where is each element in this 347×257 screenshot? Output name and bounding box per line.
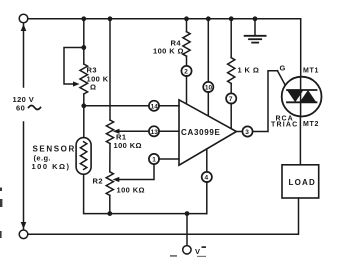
wire R1 to R2 <box>109 144 111 172</box>
wire sensor bottom to bottom bus <box>84 174 207 213</box>
terminal V- <box>183 246 191 254</box>
wire load to bottom rail <box>28 198 299 234</box>
wire R4 to pin 2 <box>186 56 188 66</box>
label RCA TRIAC <box>271 115 298 128</box>
pin 14 <box>149 101 159 111</box>
arrow to bottom terminal <box>21 222 27 229</box>
triac RCA <box>282 77 322 117</box>
svg-text:MT2: MT2 <box>303 121 319 128</box>
svg-text:MT1: MT1 <box>303 68 319 75</box>
wire pin 10 to op-amp <box>207 92 209 117</box>
node dot R3-sensor-pin14 <box>81 103 86 108</box>
sensor resistor element <box>80 142 86 170</box>
svg-text:100 KΩ: 100 KΩ <box>117 186 145 195</box>
wire rail to R4 <box>186 19 188 32</box>
wire V- drop <box>186 214 188 246</box>
wire pin 14 to op-amp <box>159 105 179 107</box>
label G <box>280 64 286 73</box>
resistor R3 <box>80 64 88 94</box>
svg-text:60: 60 <box>16 104 25 113</box>
wire rail to 1K <box>230 19 232 58</box>
node dot V- tap <box>185 211 190 216</box>
wire R3 wiper loop <box>64 48 84 85</box>
wire pin 4 to bus <box>206 182 208 214</box>
svg-text:G: G <box>280 64 286 73</box>
label 120V 60~ <box>13 95 35 113</box>
wire R2 bottom to bus <box>109 195 111 213</box>
svg-text:4: 4 <box>205 175 209 182</box>
label R1 100K ohm <box>114 133 142 151</box>
label 1K ohm <box>238 66 260 75</box>
label SENSOR (e.g. 100K ohm) <box>32 145 76 172</box>
wire pin 2 to op-amp <box>186 76 188 104</box>
arrow R3 wiper <box>73 81 80 86</box>
load box <box>282 165 319 198</box>
node dot rail-R1 <box>108 16 113 21</box>
label R4 100K ohm <box>153 39 184 56</box>
label R2 100K ohm <box>93 177 145 195</box>
label V- <box>195 246 206 256</box>
wire MT1 from rail <box>300 19 302 77</box>
svg-text:LOAD: LOAD <box>289 178 316 187</box>
wire op-amp apex to pin 3 <box>236 131 242 133</box>
svg-text:100 KΩ): 100 KΩ) <box>32 162 71 171</box>
wire pin 1 to op-amp <box>159 158 179 160</box>
wire gate diagonal <box>278 71 288 90</box>
svg-text:1 K Ω: 1 K Ω <box>238 66 260 75</box>
op-amp U1 CA3099E <box>179 100 236 165</box>
svg-text:SENSOR: SENSOR <box>33 145 76 154</box>
node dot rail-ground <box>253 16 258 21</box>
wire rail to pin 10 <box>207 19 209 82</box>
node dot R3 wiper tap <box>81 45 86 50</box>
pin 13 <box>149 126 159 136</box>
node dot rail-1K <box>229 16 234 21</box>
terminal AC bottom <box>19 230 28 239</box>
pin 3 <box>242 126 252 136</box>
pin 4 <box>202 172 212 182</box>
label MT2 <box>303 121 319 128</box>
sensor envelope <box>76 138 91 175</box>
svg-text:13: 13 <box>151 129 159 136</box>
arrow R2 wiper <box>113 177 120 182</box>
resistor 1K <box>228 58 235 84</box>
wire rail to R1 <box>109 19 111 120</box>
svg-text:R3: R3 <box>87 66 97 75</box>
wire R2 wiper to pin 1 <box>117 164 154 180</box>
wire rail to R3 <box>83 19 85 64</box>
wire pin 7 to op-amp <box>230 103 232 128</box>
node dot R2-bus <box>107 211 112 216</box>
wire R3 bottom to sensor <box>83 94 85 138</box>
resistor R4 <box>183 32 190 57</box>
label MT1 <box>303 68 319 75</box>
wire AC source line <box>23 23 25 230</box>
wire top rail <box>28 18 301 20</box>
svg-text:3: 3 <box>245 129 249 136</box>
svg-text:1: 1 <box>152 157 156 164</box>
pin 10 <box>203 82 213 92</box>
node dot rail-R4 <box>184 16 189 21</box>
svg-text:10: 10 <box>205 85 213 92</box>
svg-text:14: 14 <box>151 103 159 110</box>
pin 2 <box>181 66 191 76</box>
svg-text:TRIAC: TRIAC <box>271 122 298 129</box>
wire R1 wiper to pin 13 <box>117 130 149 132</box>
sine symbol <box>29 106 41 110</box>
svg-text:CA3099E: CA3099E <box>181 128 221 137</box>
svg-text:2: 2 <box>184 69 188 76</box>
svg-text:V: V <box>195 247 200 256</box>
svg-text:100 K Ω: 100 K Ω <box>153 47 184 56</box>
ground <box>245 19 266 43</box>
pin 1 <box>149 154 159 164</box>
resistor R1 <box>106 120 113 144</box>
wire pin 13 to op-amp <box>159 130 179 132</box>
svg-text:Ω: Ω <box>90 83 96 92</box>
resistor R2 <box>106 172 113 196</box>
svg-text:R2: R2 <box>93 177 103 186</box>
svg-text:100 KΩ: 100 KΩ <box>114 141 142 150</box>
node dot rail-pin10 <box>206 16 211 21</box>
wire 1K to pin 7 <box>230 84 232 94</box>
arrow R1 wiper <box>113 129 120 134</box>
wire pin 3 to gate <box>252 71 277 132</box>
artifact bottom caption <box>170 255 206 257</box>
wire MT2 to load <box>299 117 301 165</box>
arrow to top terminal <box>21 24 27 31</box>
wire op-amp to pin 4 <box>206 149 208 172</box>
svg-text:7: 7 <box>229 96 233 103</box>
wire node to pin 14 <box>84 105 149 107</box>
pin 7 <box>226 93 236 103</box>
terminal AC top <box>19 14 28 23</box>
artifact left edge marks <box>0 188 2 239</box>
node dot rail-R3 <box>81 16 86 21</box>
label R3 100K ohm <box>87 66 109 92</box>
